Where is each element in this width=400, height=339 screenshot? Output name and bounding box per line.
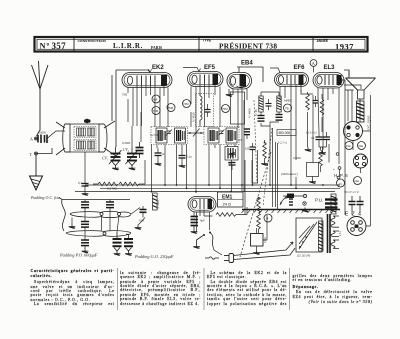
mains switch [197,232,213,246]
tube EF5 envelope [188,72,224,87]
wire EF5 grid cap [183,68,201,72]
meter 7a [284,104,292,112]
tube EF6 envelope [275,73,309,87]
svg-text:4μF: 4μF [200,219,205,223]
svg-text:EL3: EL3 [324,65,336,71]
rectifier socket top [354,154,368,168]
svg-text:H.P.S: H.P.S [334,173,348,178]
svg-text:ANNÉE: ANNÉE [317,38,329,43]
padder small ground left [69,218,76,229]
PU wires and resistor blob [283,194,303,200]
column rule 1 [117,268,119,310]
transformer primary winding [319,221,324,251]
svg-text:4n5: 4n5 [238,138,243,142]
rectifier socket bottom [347,217,366,236]
padder right diagonal [131,208,145,226]
column rule 2 [203,268,205,310]
AVC resistor to ground [261,142,268,166]
resistor R cathode EF6 [306,94,310,110]
svg-text:PARIS: PARIS [151,46,162,50]
speaker rear socket [344,122,363,141]
coupling caps pair right [316,132,331,155]
svg-text:Tol.50k: Tol.50k [150,134,159,137]
EM1 pin wires [194,210,210,231]
oscillator coil winding [200,94,202,127]
svg-text:75M: 75M [168,106,174,110]
detector cap 2 [276,115,283,121]
bottom text column 3 [207,271,287,306]
bus wire 3 [75,191,335,193]
meter 76M [152,107,160,115]
EM1 label box [218,192,244,207]
cap beside EF6 resistor [313,96,319,107]
grid resistor 0,2 Mohm horizontal [98,182,139,190]
padder wafer band 1 [70,211,131,217]
feedback loop box [307,163,319,180]
meter 6M [152,95,160,103]
voltage selector plate [296,218,322,252]
variable capacitor CV1 (dark stack) [109,147,122,166]
PU terminals [303,194,307,205]
svg-text:0,1μ: 0,1μ [187,155,193,159]
padder inner wires [85,212,129,237]
EL3 cathode wires [308,92,323,124]
dial drum shaft [258,128,276,207]
volume pot ground [253,250,260,255]
input coil assembly frame [56,121,116,156]
detector coil 1 [259,96,263,112]
tube EB4 envelope [227,73,252,90]
IF2 trimmers [219,130,225,136]
svg-text:0,5MΩ: 0,5MΩ [293,156,301,160]
padder ground D [82,249,89,254]
EF6 pin wires [280,84,301,155]
EB4 pin wires [233,87,247,193]
wire antenna cap to coil box [47,131,65,139]
tube EK2 envelope [122,73,172,88]
wire EF6 grid cap [270,68,280,73]
wire top rail to EK2 grid cap [116,69,152,73]
third IF coil under IF2 [225,147,238,161]
EM1 envelope [188,197,216,213]
EK2 pin wires [128,85,168,127]
EM1 ground [191,229,198,234]
mains plug [224,254,234,263]
bus wire 2 [100,187,340,189]
svg-text:EB4: EB4 [241,61,253,67]
svg-text:Padding G.O. 230μμF: Padding G.O. 230μμF [134,254,174,259]
speaker wires [345,90,371,215]
cap 4,5 right of padder [140,206,147,218]
svg-text:24a: 24a [354,179,359,183]
earth ground symbol large [30,155,43,190]
transformer core [328,214,331,253]
svg-text:EXC. 2500Ω: EXC. 2500Ω [367,115,371,130]
oscillator padder cap [205,104,211,117]
svg-text:6M: 6M [153,97,158,101]
cap with ground above bus [229,152,236,170]
filter capacitor 1 [349,196,356,210]
earth terminal T [30,152,38,157]
svg-text:7M5: 7M5 [122,93,128,97]
padder cap stack B (top mid) [106,200,114,213]
antenna coils (dashed box with windings) row1 [74,127,96,138]
svg-text:110 130 245: 110 130 245 [297,255,311,258]
svg-text:2,5 v: 2,5 v [339,230,342,236]
grid capacitor (dark) [136,142,144,158]
svg-text:1MΩ: 1MΩ [263,237,267,243]
svg-text:Padding P.O. 600μμF: Padding P.O. 600μμF [59,253,98,258]
svg-text:4,5n: 4,5n [139,219,145,223]
CV2 ground [129,166,136,171]
svg-text:AMED: AMED [284,99,292,103]
svg-text:583.008: 583.008 [279,131,291,135]
meter 75M b [222,105,230,113]
cap 100 right of IF2 [245,143,256,153]
mains switch ground [193,244,200,249]
header text type president [203,39,278,51]
junction ring [336,153,339,156]
svg-text:TYPE: TYPE [203,39,212,43]
padding GO capacitor (dark) [124,235,133,256]
svg-text:CONSTRUCTEUR: CONSTRUCTEUR [78,39,107,43]
variable capacitor CV2 (dark stack) [126,148,139,166]
AVC link between IF boxes [188,129,205,137]
svg-text:1937: 1937 [335,41,354,51]
antenna [32,61,49,136]
svg-text:74M: 74M [183,102,189,106]
meter 74M [183,100,191,108]
meter 23a [345,142,353,150]
AVC resistor network label box [277,130,296,136]
oscillator coil dashed box [196,94,214,127]
L wires near dial [245,160,258,215]
IF1 primary unit [156,128,167,143]
chassis bus hatched [242,210,341,214]
svg-text:EF5: EF5 [204,65,216,71]
svg-text:N° 4618: N° 4618 [192,112,196,122]
EM1 cathode cap [191,217,199,230]
svg-text:Vers F. et V.: Vers F. et V. [344,190,360,194]
anode wires to speaker transformer [341,80,361,90]
svg-text:EM1: EM1 [222,194,233,200]
antenna terminal A [30,137,38,142]
header outer box [35,37,368,52]
detector coil 2 [277,96,281,112]
PU switch arm [280,196,288,205]
meter -4 [264,214,272,222]
svg-text:EF6: EF6 [294,65,306,71]
svg-text:N° 4608: N° 4608 [248,108,252,118]
meter chauffage [337,179,345,187]
svg-text:24 Ω: 24 Ω [223,202,232,207]
EF6 to EL3 coupling wire [301,90,313,94]
heater wires below EM1 to switch [197,212,213,232]
bottom text column 4 [293,274,373,305]
resistor cathode EL3 [320,99,324,115]
cap 4n5 dark [244,129,250,139]
padder top wire [59,198,130,200]
coil switch rotor dot [84,119,91,123]
padder wafer band 2 [66,231,131,237]
svg-text:EK2: EK2 [152,65,164,71]
AC sine symbol [205,257,219,260]
resistor vertical [319,147,323,172]
loop box ground [309,179,316,184]
detector wires [261,92,279,142]
IF2 pin wires down [209,100,253,192]
padder left curl [62,200,66,232]
node A circle [310,60,317,67]
EF5 pin wires [191,84,220,193]
coil former frame [231,92,245,124]
volume potentiometer [251,215,268,250]
wire EL3 grid top [314,67,350,78]
svg-text:357: 357 [52,41,67,51]
ground top [305,147,312,152]
antenna series capacitor [38,135,47,144]
header cell separators [74,37,313,52]
wire coil box to grid row [85,152,145,184]
EB4 ground [226,89,233,97]
IF1 pin wires down [152,145,187,192]
svg-text:76M: 76M [153,109,159,113]
padder cap stack D (bottom left) [81,237,89,249]
right edge wires [352,120,371,226]
svg-text:N° 4633: N° 4633 [157,199,160,209]
svg-text:+: + [333,167,335,171]
voice coil / output transformer winding [357,101,365,122]
svg-text:P.U.: P.U. [315,198,323,203]
wire AVC line down to coil box [112,70,116,147]
column rule 3 [289,268,291,310]
bottom text column 2 [120,271,201,306]
cap 0,1 left of resistor [78,179,89,196]
IF2 primary unit [208,128,219,143]
detector cap 1 [258,116,265,122]
IF2 dashed box [204,127,239,145]
IF1 secondary unit [175,128,186,143]
padding PO capacitor (dark) [113,232,122,256]
bus wire 1 [85,184,340,186]
svg-text:33a: 33a [358,144,363,148]
switch-cord link wire [213,245,223,255]
wire EK2 grid down to grid cap [132,112,141,148]
grid resistor vertical mid [257,197,261,234]
svg-text:7a: 7a [285,107,289,111]
EL3 pin wires [318,88,339,164]
svg-text:A: A [30,137,33,142]
padder cap stack C (mid left) [81,218,89,231]
filter capacitor 2 [357,196,364,210]
tracking coil right [153,193,158,210]
header text N 357 [40,41,67,51]
PU filter caps dark [325,200,338,214]
dial cord dashed diagonal 2 [263,128,272,206]
meter 24a [354,177,362,185]
svg-text:N: N [40,42,46,51]
CV1 ground [112,166,119,171]
junction dots on buses [151,184,324,192]
antenna coils row2 [74,140,96,151]
svg-text:23a: 23a [346,144,351,148]
header text annee 1937 [317,38,355,51]
wire terminal T to coil box [38,148,53,154]
decoupling capacitor 0,1 under IF1 [179,150,193,168]
IF1 dashed box [151,127,188,145]
cathode capacitor under IF1 [155,148,166,166]
tube EL3 envelope [313,73,344,89]
mains cord wires [234,242,296,260]
svg-text:Padding O.C. fixe: Padding O.C. fixe [30,195,60,200]
detector trimmer cap [266,99,272,110]
bottom text column 1 [31,269,115,306]
pot wiper hatch marks [289,199,293,205]
meter 75M [167,104,175,112]
svg-text:75M: 75M [222,107,228,111]
header text constructeur [78,39,163,50]
IF2 secondary unit [226,128,237,143]
svg-text:0,0001: 0,0001 [122,141,131,145]
PU ground [302,208,309,213]
transformer secondary windings [331,216,339,248]
junction terminals right [333,167,341,179]
svg-text:(Mélomane): (Mélomane) [281,172,298,176]
padder right ground [135,225,142,230]
wire EB4 top frame [237,67,263,82]
svg-text:PRÉSIDENT 738: PRÉSIDENT 738 [219,40,277,50]
dial cord dashed diagonal 1 [254,100,257,183]
IF1 trimmers [166,130,172,136]
svg-text:100: 100 [245,147,250,151]
speaker cone [346,70,376,99]
mid vertical wires right [265,95,340,210]
meter 33a [358,142,366,150]
EM1 series resistor horizontal [216,207,247,216]
filter choke [331,194,336,214]
padder cap stack A (top left) [81,200,89,213]
svg-text:L.I.R.R.: L.I.R.R. [113,42,143,50]
svg-text:0,0005: 0,0005 [38,131,46,135]
